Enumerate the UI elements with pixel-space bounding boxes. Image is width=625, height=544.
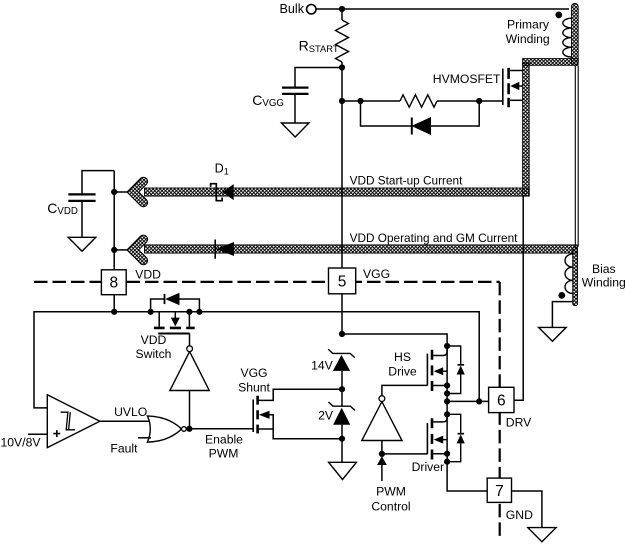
wire comparator plus input [28,433,47,435]
PWM control arrow [377,456,387,465]
node zener mid [339,386,345,392]
wire driver node column [446,346,448,462]
transistor VDD switch plates [154,327,195,330]
svg-text:6: 6 [497,393,506,410]
svg-text:PWM: PWM [209,447,239,461]
pin 5 box [329,268,356,294]
node driver drain [444,411,450,417]
wire PWM node to driver gate [382,453,428,455]
zener 2V [328,402,355,410]
wire driver source to pin 7 [447,462,487,491]
transistor driver [426,423,428,454]
svg-text:VGG: VGG [363,267,390,281]
wire DRV row [447,400,489,402]
svg-text:HS: HS [394,350,411,364]
node switch left [148,309,154,315]
svg-text:7: 7 [495,483,504,500]
wire inverter1 output to VDD switch gate [189,333,191,345]
inverter U1 (VDD switch driver) [170,352,209,391]
bus arrowhead into VDD node (start-up) [127,177,148,207]
node VDD bus1 [111,189,117,195]
wire comparator output to NOR [100,420,150,422]
transistor VGG shunt [252,400,254,433]
node combo left [357,98,363,104]
svg-text:Fault: Fault [110,442,138,456]
svg-text:Drive: Drive [388,364,417,378]
ground (CVDD) [68,237,96,251]
svg-text:PWM: PWM [376,485,406,499]
wire bus1 arrow stub [114,191,128,193]
transistor HVMOSFET body arrow [518,85,523,87]
node HS diode low [444,390,450,396]
svg-text:Driver: Driver [412,460,445,474]
node HS drain [444,343,450,349]
IC boundary dashed [34,282,500,537]
svg-text:14V: 14V [311,359,334,373]
wire bulk node down / VGG column x=342 [341,9,343,334]
svg-text:10V/8V: 10V/8V [1,435,42,449]
svg-text:VDD: VDD [141,333,167,347]
node VDD pin8 [111,309,117,315]
pin 7 box [487,478,511,502]
wire combo diode branch [361,101,480,126]
node VGG row [339,331,345,337]
node DRV [444,398,450,404]
node switch right [186,309,192,315]
svg-text:Winding: Winding [506,32,550,46]
diode (parallel combo, pointing left) [411,118,413,135]
ground (VGG shunt/zeners) [329,462,357,479]
svg-text:VDD Start-up Current: VDD Start-up Current [350,174,463,188]
svg-text:Winding: Winding [582,275,625,289]
pin 8 box [101,270,126,295]
node HS source [444,382,450,388]
wire inverter2 input [381,441,383,454]
wire Bulk to primary top [316,8,569,10]
wire gate combo row [342,100,503,102]
terminal Bulk [307,5,316,14]
diode D1 (schottky on bus1) [211,184,223,201]
bus VDD operating and GM current (hatched) [145,245,578,253]
svg-text:HVMOSFET: HVMOSFET [433,72,501,86]
transistor VDD switch body arrow (down) [171,318,180,327]
resistor RSTART [336,20,349,62]
svg-text:Control: Control [371,500,410,514]
wire VGG shunt body [269,415,273,429]
wire VGG node row to HS drain [342,334,447,346]
wire inverter2 output to HS gate [382,385,428,395]
wire pin7 to ground [512,491,542,528]
wire PWM control stem [381,465,383,481]
svg-text:DRV: DRV [506,415,532,429]
transistor HVMOSFET source lead [510,99,523,101]
wire VGG shunt drain [258,389,342,400]
polarity dot primary [555,12,562,19]
transistor HS drive [426,354,428,386]
plus sign [53,430,60,437]
ground (bias winding) [539,327,567,341]
bus arrowhead into VDD node (operating) [127,235,148,265]
bias winding hatched bar [573,247,578,306]
wire enable PWM to VGG shunt gate [186,428,253,430]
resistor (gate series, parallel combo) [400,95,437,107]
diode (HS drive body) [447,346,461,394]
node driver diode low [444,459,450,465]
wire C_VDD rail [113,171,115,312]
zener 14V [328,349,355,357]
transformer left vertical hatched bar (through HVMOSFET) [523,63,530,196]
diode (driver body) [447,414,461,461]
node switch/DRV [476,398,482,404]
wire bias winding to ground [552,302,572,328]
capacitor CVGG [282,88,309,94]
node combo right [476,98,482,104]
wire VGG shunt source [258,429,342,439]
transistor VDD switch stubs [159,312,189,327]
node pwm control [379,451,385,457]
svg-text:5: 5 [338,273,347,290]
node rstart/cvgg [339,64,345,70]
node zener low [339,436,345,442]
svg-text:VDD: VDD [135,267,161,281]
svg-text:Shunt: Shunt [238,381,270,395]
transformer primary hatched winding bar [572,4,579,66]
wire C_VDD top [82,171,114,238]
svg-text:Switch: Switch [136,347,172,361]
transistor VDD switch gate [158,333,189,335]
svg-text:Bulk: Bulk [280,2,305,16]
wire bus2 arrow stub [114,249,128,251]
bias winding coil [565,254,573,294]
wire left rail to comparator [34,312,114,408]
op-amp UVLO comparator [47,395,100,448]
hysteresis glyph [61,412,75,430]
transformer core lines [575,66,578,247]
svg-text:Bias: Bias [592,262,616,276]
transistor HVMOSFET gate bar [502,69,504,105]
svg-text:2V: 2V [318,408,334,422]
VDD switch diode branch [151,299,200,312]
wire C_VGG branch [295,68,342,124]
transistor HVMOSFET drain lead [510,70,523,72]
bus VDD start-up current (hatched) [145,188,530,196]
svg-text:VDD Operating and GM Current: VDD Operating and GM Current [350,231,519,245]
polarity dot bias [558,292,565,299]
transistor HVMOSFET channel [507,68,510,107]
svg-text:VGG: VGG [240,366,267,380]
diode (VDD switch body, pointing left) [164,294,166,304]
wire fault input [138,437,151,439]
NOR gate [147,416,181,442]
svg-text:Enable: Enable [205,432,243,446]
svg-text:GND: GND [506,508,533,522]
node driver source [444,451,450,457]
svg-text:Primary: Primary [507,18,550,32]
node VDD bus2 [111,247,117,253]
ground (pin 7) [528,528,556,542]
inverter U2 (HS drive) [362,402,402,441]
transformer top horizontal hatched bar [523,59,579,66]
pin 6 box [489,387,514,412]
wire zener column [341,371,343,462]
node bulk/rstart [339,6,345,12]
wire VDD switch row to DRV column [114,312,479,402]
diode (on bus2) [214,240,216,259]
wire pin6 to HVMOSFET source node [514,196,523,400]
wire NOR output to inverter1 input [189,391,191,429]
primary winding coil [563,18,572,57]
node switch right2 [196,309,202,315]
svg-text:8: 8 [109,275,118,292]
node gate row left [339,98,345,104]
capacitor CVDD [68,194,95,201]
ground (CVGG) [281,123,309,137]
node enable pwm [186,426,192,432]
svg-text:UVLO: UVLO [114,405,147,419]
